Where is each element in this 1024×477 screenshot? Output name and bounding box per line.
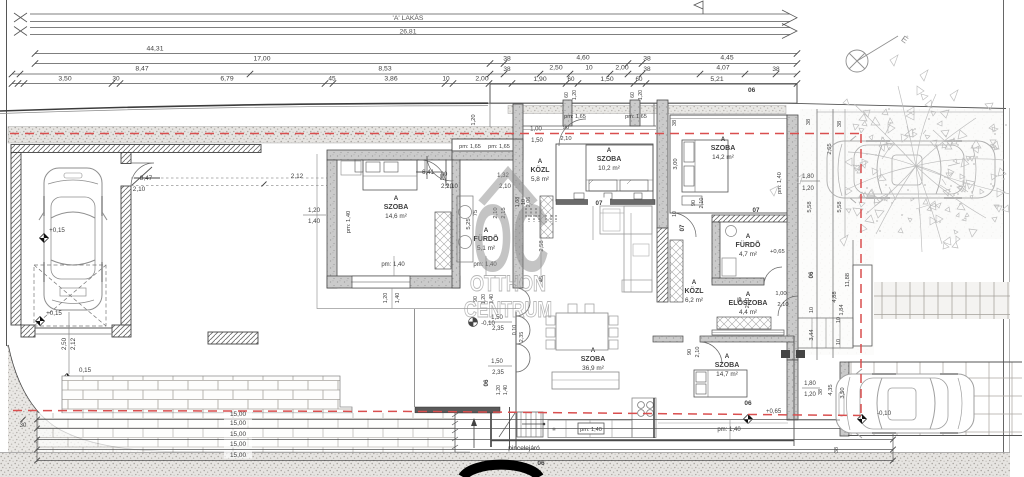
wall furdo47 bottom: [712, 278, 764, 285]
dim lines 15,00: [37, 419, 893, 421]
svg-text:-0,10: -0,10: [877, 410, 892, 417]
svg-text:1,20: 1,20: [804, 392, 816, 398]
svg-text:38: 38: [643, 56, 651, 63]
left dim terminator: [36, 411, 38, 462]
svg-text:5,21: 5,21: [710, 76, 723, 83]
svg-text:26,81: 26,81: [399, 29, 416, 36]
svg-text:06: 06: [809, 271, 815, 278]
parking X square dashed: [34, 265, 106, 326]
svg-text:1,40: 1,40: [503, 385, 509, 395]
svg-text:2,10: 2,10: [446, 184, 458, 190]
svg-text:10: 10: [442, 76, 450, 83]
garage bottom pier right: [112, 325, 131, 337]
svg-text:45: 45: [328, 76, 336, 83]
svg-text:06: 06: [483, 379, 490, 386]
up arrow: [473, 420, 475, 448]
svg-text:3,50: 3,50: [840, 387, 846, 398]
right yard light stipple: [800, 109, 1004, 239]
svg-text:8,47: 8,47: [140, 175, 153, 182]
radiator marks furdo wall: [525, 208, 527, 218]
svg-text:6,79: 6,79: [220, 76, 233, 83]
svg-text:SZOBA: SZOBA: [597, 156, 622, 163]
red dashed building line top: [10, 133, 861, 135]
sofa szoba14: [341, 161, 361, 175]
terrace dark wall: [415, 407, 500, 413]
eaves overhang line: [317, 154, 516, 309]
garage top fence wall: [11, 145, 261, 153]
corridor walls right: [852, 240, 854, 348]
svg-text:1,40: 1,40: [395, 293, 401, 304]
svg-text:38: 38: [643, 66, 651, 73]
washbasins: [457, 196, 473, 262]
south wall living: [491, 440, 794, 442]
door szoba10: [559, 119, 586, 146]
svg-text:KÖZL: KÖZL: [530, 165, 550, 174]
door szoba14_7: [700, 342, 722, 364]
parking tiles: [848, 362, 1022, 435]
svg-text:4,07: 4,07: [716, 65, 729, 72]
door szoba14_2 south: [672, 213, 696, 237]
svg-text:6,41: 6,41: [422, 169, 435, 176]
garage side door swing: [131, 163, 154, 186]
svg-text:pincelejáró: pincelejáró: [508, 445, 540, 452]
svg-text:60: 60: [564, 92, 570, 98]
svg-text:pm: 1,65: pm: 1,65: [488, 144, 510, 150]
wall szoba14_7 east lower: [787, 360, 798, 420]
svg-text:1,50: 1,50: [491, 359, 503, 365]
svg-text:pm: 1,40: pm: 1,40: [717, 427, 741, 433]
fence line mid: [454, 410, 456, 452]
room SZOBA 10,2 outline: [556, 144, 653, 201]
svg-text:4,35: 4,35: [828, 384, 834, 395]
room SZOBA 14,2 outline: [670, 115, 787, 213]
svg-text:pm: 1,40: pm: 1,40: [777, 172, 783, 194]
closet eloszoba: [717, 317, 771, 329]
svg-text:1,20: 1,20: [308, 207, 321, 214]
svg-text:A: A: [591, 347, 596, 354]
entry door eloszoba: [778, 296, 798, 316]
svg-text:3,50: 3,50: [58, 76, 71, 83]
svg-text:06: 06: [748, 87, 756, 94]
svg-text:1,50: 1,50: [600, 76, 613, 83]
svg-text:60: 60: [568, 76, 575, 83]
dim row 44,31: [35, 53, 797, 55]
svg-text:KÖZL: KÖZL: [684, 286, 704, 295]
svg-text:14,7 m²: 14,7 m²: [716, 371, 738, 378]
svg-text:38: 38: [503, 56, 511, 63]
covered walk dashed lines: [131, 177, 327, 179]
svg-text:OTTHON: OTTHON: [470, 271, 546, 296]
svg-text:15,00: 15,00: [230, 441, 246, 448]
svg-text:'A' LAKÁS: 'A' LAKÁS: [393, 13, 424, 22]
closet kozl62: [670, 240, 683, 302]
svg-text:SZOBA: SZOBA: [711, 145, 736, 152]
svg-text:pm: 1,65: pm: 1,65: [625, 114, 647, 120]
svg-text:5,58: 5,58: [837, 201, 843, 212]
wall south of eloszoba: [653, 336, 683, 342]
svg-text:+0,15: +0,15: [46, 310, 62, 317]
svg-text:10: 10: [836, 339, 842, 345]
shelf eloszoba: [712, 330, 784, 335]
svg-text:+0,15: +0,15: [49, 227, 65, 234]
svg-text:2,50: 2,50: [61, 337, 68, 350]
svg-text:3,44: 3,44: [809, 329, 815, 341]
living west wall: [515, 312, 517, 449]
svg-text:2,00: 2,00: [615, 65, 628, 72]
brick retaining wall: [62, 376, 352, 413]
closet left of szoba10: [540, 196, 553, 238]
south yard lines: [793, 336, 795, 446]
svg-text:44,31: 44,31: [146, 46, 163, 53]
car top right: [827, 136, 995, 203]
svg-text:10: 10: [585, 65, 593, 72]
svg-text:4,45: 4,45: [720, 55, 733, 62]
side yard fence lines: [817, 111, 1003, 113]
svg-text:2,35: 2,35: [492, 370, 504, 376]
level marker +0,15 upper: [40, 234, 49, 243]
terrace pier hatched: [208, 332, 258, 344]
wall center vertical: [657, 100, 668, 228]
bed szoba14: [363, 160, 417, 190]
porch post B: [630, 100, 640, 126]
svg-text:38: 38: [806, 119, 812, 125]
property boundary left: [6, 0, 8, 346]
level marker -0,10 terrace: [469, 318, 478, 327]
door furdo47: [764, 267, 782, 285]
svg-text:1,20: 1,20: [471, 114, 477, 125]
sidewalk stipple strip: [8, 127, 514, 144]
dim row 17,00: [35, 63, 797, 65]
svg-text:2,10: 2,10: [777, 302, 788, 308]
wall north entry: [452, 151, 523, 160]
garage left wall: [11, 153, 21, 326]
svg-text:0,15: 0,15: [79, 367, 92, 374]
svg-text:SZOBA: SZOBA: [384, 204, 409, 211]
svg-text:07: 07: [680, 224, 686, 231]
svg-text:1,00: 1,00: [775, 291, 786, 297]
svg-text:FÜRDÕ: FÜRDÕ: [736, 240, 761, 249]
level marker -0,10 parking: [858, 415, 867, 424]
svg-text:30: 30: [20, 423, 27, 429]
watermark OC house roof: [484, 172, 532, 200]
svg-text:A: A: [394, 195, 399, 202]
svg-text:10: 10: [836, 317, 842, 323]
svg-text:2,10: 2,10: [699, 198, 705, 209]
wall szoba14 bottom: [327, 276, 460, 288]
svg-text:A: A: [746, 233, 751, 240]
svg-text:1,80: 1,80: [804, 381, 816, 387]
car bottom right: [836, 369, 974, 438]
svg-text:1,80: 1,80: [802, 174, 814, 180]
wall furdo right: [513, 139, 523, 288]
svg-text:4,88: 4,88: [832, 291, 838, 302]
walkway slabs right: [874, 282, 1010, 319]
brick lower courses: [37, 413, 455, 455]
svg-text:2,10: 2,10: [695, 347, 701, 358]
svg-text:✱: ✱: [552, 427, 556, 433]
wall furdo47 left: [712, 222, 720, 282]
level marker 0,15 outside: [63, 374, 72, 383]
entry door KOZL: [427, 156, 452, 181]
stipple under curve: [8, 345, 180, 452]
svg-text:14,6 m²: 14,6 m²: [385, 213, 407, 220]
svg-text:2,12: 2,12: [291, 173, 304, 180]
level marker +0,15 lower: [36, 317, 45, 326]
stair left wall dark: [490, 407, 492, 447]
svg-text:pm: 1,40: pm: 1,40: [381, 262, 405, 268]
svg-text:07: 07: [753, 207, 760, 214]
terrace edge line: [414, 309, 416, 407]
svg-text:6,2 m²: 6,2 m²: [685, 297, 703, 304]
dimension band A LAKAS: [30, 13, 790, 15]
svg-text:1,84: 1,84: [839, 304, 845, 316]
garage door: [35, 327, 112, 329]
marker bottom red line: [744, 415, 753, 424]
radiator kozl: [528, 215, 530, 222]
svg-text:06: 06: [744, 400, 752, 407]
kitchen counter bottom: [548, 420, 632, 438]
svg-text:2,10: 2,10: [133, 186, 146, 193]
svg-text:60: 60: [630, 92, 636, 98]
tree canopy: [843, 86, 1010, 252]
canopy walkway stipple: [508, 106, 786, 114]
north compass: [846, 36, 898, 72]
svg-text:90: 90: [691, 200, 697, 206]
svg-text:11,88: 11,88: [845, 273, 851, 287]
svg-text:30: 30: [112, 76, 120, 83]
svg-text:ELÕSZOBA: ELÕSZOBA: [729, 298, 768, 307]
svg-text:38: 38: [503, 66, 511, 73]
svg-text:38: 38: [818, 389, 824, 395]
svg-text:15,00: 15,00: [230, 431, 246, 438]
property boundary right: [1003, 0, 1005, 460]
porch step lines: [489, 84, 491, 103]
bed szoba10: [586, 145, 653, 191]
svg-text:2,12: 2,12: [70, 337, 77, 350]
svg-text:8,47: 8,47: [135, 66, 148, 73]
svg-text:É: É: [899, 34, 910, 46]
svg-text:A: A: [692, 279, 697, 286]
svg-text:1,20: 1,20: [572, 90, 578, 100]
svg-text:2,50: 2,50: [549, 65, 562, 72]
svg-text:CENTRUM: CENTRUM: [464, 297, 552, 322]
svg-text:4,4 m²: 4,4 m²: [739, 309, 757, 316]
dining table: [556, 313, 608, 350]
svg-text:SZOBA: SZOBA: [581, 356, 606, 363]
svg-text:5,8 m²: 5,8 m²: [531, 176, 549, 183]
svg-text:A: A: [538, 158, 543, 165]
parking bottom edge: [848, 435, 1022, 437]
svg-text:A: A: [746, 291, 751, 298]
pillar block: [853, 265, 872, 346]
svg-text:38: 38: [772, 66, 780, 73]
sectional sofa living: [600, 206, 652, 234]
step piers: [781, 350, 790, 358]
svg-text:pm: 1,40: pm: 1,40: [580, 427, 602, 433]
red dashed building line bottom: [13, 411, 861, 416]
car in garage: [39, 168, 107, 310]
svg-text:14,2 m²: 14,2 m²: [712, 154, 734, 161]
svg-text:1,20: 1,20: [383, 293, 389, 304]
svg-text:2,35: 2,35: [492, 326, 504, 332]
svg-text:pm: 1,40: pm: 1,40: [346, 211, 352, 234]
entry steps: [798, 318, 853, 348]
tree scatter top: [770, 55, 958, 246]
road edge: [0, 103, 488, 111]
svg-text:5,25: 5,25: [466, 218, 472, 229]
svg-text:4,60: 4,60: [576, 55, 589, 62]
svg-text:10: 10: [809, 307, 815, 313]
window marks szoba14_2 top: [670, 114, 787, 116]
dimension band 26,81: [30, 27, 790, 29]
svg-text:10,2 m²: 10,2 m²: [598, 165, 620, 172]
svg-text:+0,65: +0,65: [770, 249, 785, 255]
svg-text:17,00: 17,00: [253, 56, 270, 63]
svg-text:2,10: 2,10: [560, 136, 571, 142]
svg-text:38: 38: [672, 120, 678, 126]
svg-text:1,50: 1,50: [531, 138, 543, 144]
wall furdo47 top: [712, 215, 787, 222]
parking top edge: [848, 361, 1022, 363]
bench szoba10: [574, 193, 584, 199]
svg-text:36,9 m²: 36,9 m²: [582, 365, 604, 372]
svg-text:A: A: [607, 147, 612, 154]
porch post A: [563, 100, 572, 126]
basement stair pincelejaro: [517, 412, 543, 437]
furdo47 fixtures: [726, 226, 737, 237]
svg-text:1,20: 1,20: [802, 186, 814, 192]
canopy outline: [490, 84, 797, 103]
window szoba14 bottom: [352, 276, 410, 288]
dim row 8,47 8,53: [12, 73, 797, 75]
pm 1,40 box kitchen: [578, 423, 604, 434]
svg-text:5,58: 5,58: [807, 201, 813, 212]
svg-text:4,7 m²: 4,7 m²: [739, 251, 757, 258]
side table living: [633, 244, 649, 256]
wall east main: [787, 115, 798, 360]
porch side wall entry: [513, 104, 523, 139]
svg-text:60: 60: [636, 76, 643, 83]
island counter: [552, 372, 619, 389]
black arc stamp: [463, 465, 539, 477]
right dim terminator: [892, 411, 894, 462]
svg-text:2,35: 2,35: [519, 332, 525, 343]
wall szoba10 bottom thick: [556, 200, 655, 205]
svg-text:38: 38: [837, 121, 843, 127]
stove counter column: [632, 398, 656, 438]
folding doors arcs: [516, 288, 530, 372]
wall kitchen east dark: [653, 398, 655, 438]
svg-text:3,86: 3,86: [384, 76, 397, 83]
bed szoba14_7: [694, 370, 747, 397]
svg-text:3,00: 3,00: [673, 158, 679, 169]
svg-text:90: 90: [687, 349, 693, 355]
svg-text:A: A: [725, 353, 730, 360]
site curve boundary: [8, 345, 470, 453]
stove: [638, 402, 645, 409]
svg-text:1,20: 1,20: [496, 385, 502, 395]
red dashed building line right: [860, 134, 862, 418]
svg-text:A: A: [721, 136, 726, 143]
counter line east rooms: [658, 422, 788, 424]
door szoba14: [420, 160, 446, 186]
svg-text:8,53: 8,53: [378, 66, 391, 73]
svg-text:pm: 1,65: pm: 1,65: [459, 144, 481, 150]
wall szoba14 left: [327, 160, 337, 288]
svg-text:SZOBA: SZOBA: [715, 362, 740, 369]
wardrobe crosshatch: [435, 212, 451, 269]
wall szoba14/furdo divider: [452, 156, 460, 288]
svg-text:90: 90: [440, 174, 446, 180]
svg-text:1,20: 1,20: [638, 90, 644, 100]
parking left pier: [840, 362, 849, 436]
svg-text:06: 06: [537, 460, 545, 467]
svg-text:15,00: 15,00: [230, 420, 246, 427]
svg-text:38: 38: [834, 447, 840, 453]
dim row 3,50 30 6,79: [12, 83, 797, 85]
svg-text:1,90: 1,90: [533, 76, 546, 83]
svg-text:15,00: 15,00: [230, 452, 246, 459]
wall szoba14 top: [327, 150, 457, 160]
svg-text:2,00: 2,00: [475, 76, 488, 83]
svg-text:0,10: 0,10: [512, 325, 518, 336]
garage right wall: [121, 153, 131, 164]
svg-text:10: 10: [672, 211, 678, 217]
bottom stipple strip: [0, 453, 1010, 477]
porch slab entry: [452, 139, 523, 151]
garage bottom pier left: [21, 325, 35, 337]
flag marker on band: [694, 1, 703, 14]
svg-text:1,40: 1,40: [308, 218, 321, 225]
upper terrain line right: [488, 103, 1006, 108]
bed szoba14_2: [682, 140, 728, 192]
svg-text:15,00: 15,00: [230, 411, 246, 418]
